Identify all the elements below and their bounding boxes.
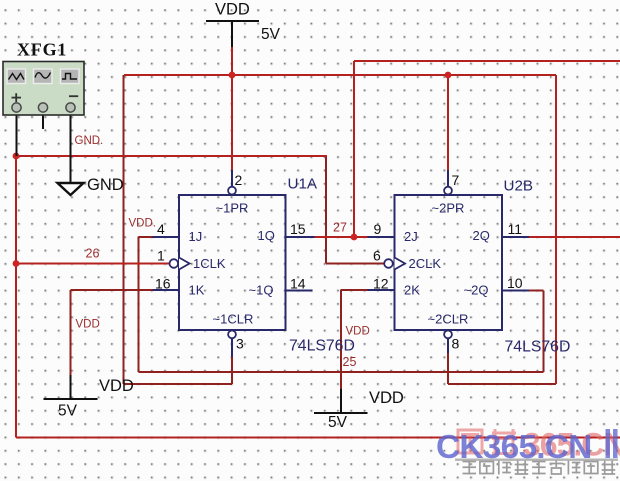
svg-text:12: 12 [373,276,389,292]
svg-text:U2B: U2B [504,178,534,195]
svg-text:5V: 5V [261,26,281,43]
svg-text:1K: 1K [189,283,205,298]
svg-text:VDD: VDD [99,377,134,395]
svg-text:XFG1: XFG1 [17,40,67,60]
svg-text:~2Q: ~2Q [464,283,489,298]
svg-text:74LS76D: 74LS76D [289,338,355,355]
svg-text:6: 6 [373,248,381,264]
svg-text:1: 1 [157,248,165,264]
svg-text:14: 14 [290,276,306,292]
svg-text:1Q: 1Q [258,228,275,243]
svg-text:GND: GND [87,176,124,194]
svg-text:4: 4 [157,221,165,237]
svg-text:1CLK: 1CLK [193,256,226,271]
svg-text:1J: 1J [189,229,203,244]
svg-text:~2PR: ~2PR [432,201,465,216]
svg-text:3: 3 [236,336,244,352]
svg-text:2K: 2K [404,283,420,298]
svg-text:CK365.CN: CK365.CN [436,429,592,466]
svg-text:15: 15 [290,221,306,237]
svg-text:VDD: VDD [369,389,404,407]
svg-text:26: 26 [86,247,100,261]
svg-text:7: 7 [452,172,460,188]
svg-text:VDD: VDD [346,326,370,338]
svg-text:2: 2 [235,172,243,188]
svg-text:10: 10 [507,275,523,291]
svg-text:2CLK: 2CLK [409,256,442,271]
svg-text:25: 25 [343,355,357,369]
svg-text:9: 9 [374,221,382,237]
svg-text:U1A: U1A [288,176,318,193]
svg-text:~2CLR: ~2CLR [428,312,469,327]
svg-text:VDD: VDD [76,319,100,331]
svg-text:~1Q: ~1Q [249,283,274,298]
svg-text:16: 16 [155,276,171,292]
svg-text:5V: 5V [58,403,78,420]
svg-text:2J: 2J [404,229,418,244]
svg-text:VDD.: VDD. [129,218,156,230]
svg-text:11: 11 [508,221,523,237]
svg-text:2Q: 2Q [473,228,490,243]
svg-text:VDD: VDD [215,1,250,19]
svg-text:GND.: GND. [75,135,104,147]
svg-text:27: 27 [333,221,347,235]
svg-text:~1PR: ~1PR [216,201,249,216]
svg-text:5V: 5V [328,414,348,431]
svg-text:~1CLR: ~1CLR [213,312,254,327]
svg-text:74LS76D: 74LS76D [505,339,571,356]
svg-text:8: 8 [452,336,460,352]
